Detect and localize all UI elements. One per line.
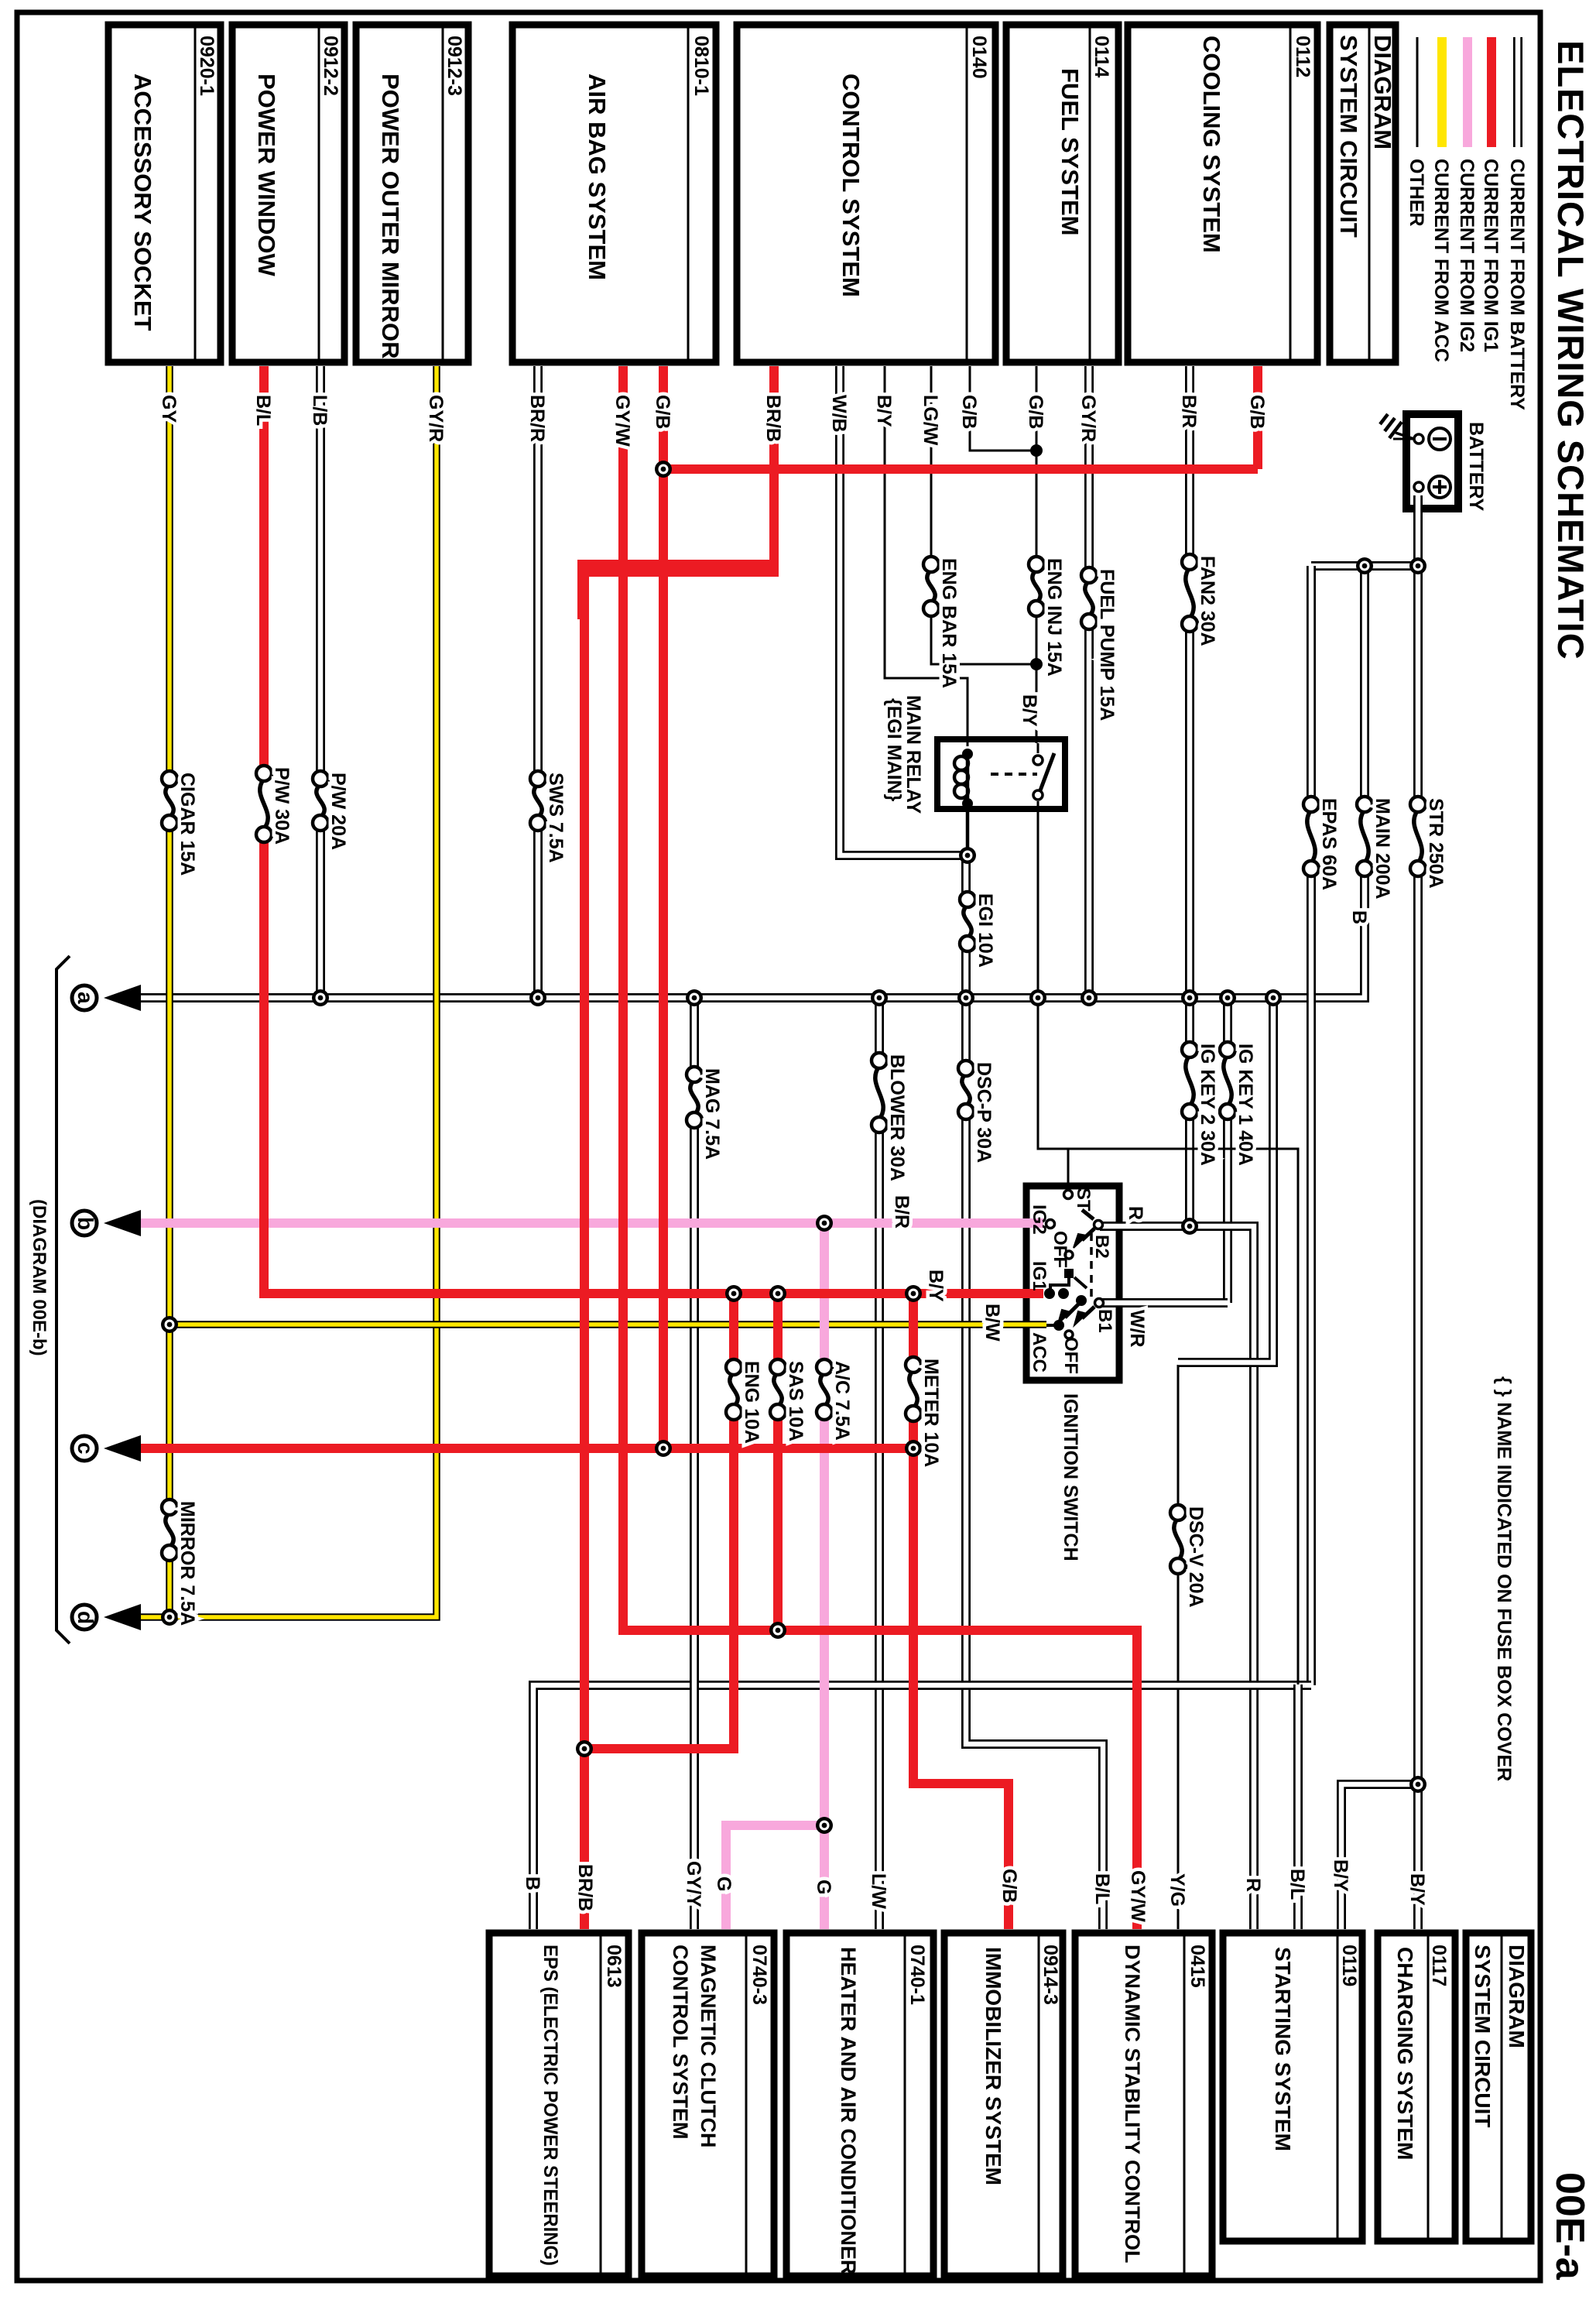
svg-text:IG2: IG2	[1029, 1205, 1050, 1235]
wire GY/R from POWER OUTER MIRROR down to d-line node d	[122, 366, 437, 1617]
junction B/Y line ENG	[725, 1285, 742, 1302]
svg-text:0740-3: 0740-3	[748, 1945, 770, 2005]
wire B/R from COOLING SYSTEM through FAN2 30A, IG KEY 2 30A to R line	[1185, 366, 1194, 1226]
svg-text:B2: B2	[1091, 1235, 1112, 1259]
wire c-line node c	[122, 1444, 913, 1453]
junction a-line BR/R	[529, 989, 546, 1006]
svg-text:c: c	[74, 1442, 98, 1455]
svg-text:B/R: B/R	[891, 1195, 913, 1229]
svg-text:BR/R: BR/R	[526, 395, 548, 442]
relay coil	[962, 749, 973, 759]
svg-text:0912-3: 0912-3	[444, 36, 465, 96]
wire SAS 10A branch	[773, 1294, 783, 1630]
svg-text:ST: ST	[1073, 1187, 1094, 1211]
svg-text:{ } NAME INDICATED ON FUSE BOX: { } NAME INDICATED ON FUSE BOX COVER	[1493, 1376, 1515, 1781]
svg-text:POWER OUTER MIRROR: POWER OUTER MIRROR	[377, 74, 404, 359]
box POWER WINDOW 0912-2	[232, 25, 344, 362]
node c	[72, 1436, 97, 1461]
svg-text:CIGAR 15A: CIGAR 15A	[176, 773, 198, 876]
svg-text:DSC-P 30A: DSC-P 30A	[973, 1062, 995, 1163]
wire BR/R from AIR BAG SYSTEM through SWS 7.5A to a-line	[533, 366, 543, 998]
box DIAGRAM SYSTEM CIRCUIT bottom	[1466, 1933, 1531, 2241]
svg-text:P/W 20A: P/W 20A	[327, 773, 349, 850]
wire BR/B from CONTROL SYSTEM to EPS	[584, 366, 774, 1929]
wire GY from ACCESSORY SOCKET through CIGAR 15A and MIRROR 7.5A	[166, 366, 173, 1617]
box MAGNETIC CLUTCH CONTROL SYSTEM 0740-3	[642, 1933, 774, 2276]
svg-text:0140: 0140	[968, 36, 990, 79]
node b	[72, 1211, 97, 1235]
svg-text:CURRENT FROM ACC: CURRENT FROM ACC	[1430, 159, 1452, 362]
fuse CIGAR 15A	[163, 776, 176, 826]
svg-text:DIAGRAM: DIAGRAM	[1369, 35, 1396, 149]
ignition terminal IG1	[1044, 1288, 1055, 1299]
svg-text:B/Y: B/Y	[925, 1270, 947, 1302]
fuse EPAS 60A	[1305, 801, 1317, 872]
ignition terminal ACC	[1053, 1320, 1064, 1331]
svg-text:W/R: W/R	[1126, 1310, 1148, 1348]
relay dashed link	[991, 773, 1037, 776]
svg-text:L/W: L/W	[868, 1873, 889, 1909]
svg-text:GY/R: GY/R	[1077, 395, 1099, 442]
fuse P/W 30A	[258, 770, 270, 838]
fuse FAN2 30A	[1183, 559, 1196, 627]
fuse METER 10A	[907, 1362, 920, 1417]
svg-text:GY/W: GY/W	[611, 395, 633, 447]
svg-text:GY/Y: GY/Y	[683, 1861, 704, 1907]
main relay box {EGI MAIN}	[937, 739, 1065, 809]
junction a-line relay	[1029, 989, 1046, 1006]
svg-text:0415: 0415	[1187, 1945, 1208, 1988]
svg-text:0613: 0613	[603, 1945, 625, 1988]
svg-text:W/B: W/B	[828, 395, 850, 433]
svg-text:FUEL SYSTEM: FUEL SYSTEM	[1057, 68, 1084, 235]
junction G/B link	[655, 461, 672, 478]
svg-text:AIR BAG SYSTEM: AIR BAG SYSTEM	[584, 74, 611, 280]
junction a-line BLOWER	[871, 989, 888, 1006]
fuse P/W 20A	[314, 776, 327, 826]
wire B/Y branch to starting system	[1341, 1784, 1418, 1929]
box CHARGING SYSTEM 0117	[1378, 1933, 1455, 2241]
junction G/B fuel	[1030, 444, 1043, 457]
wire G branch through A/C 7.5A to heater and magnetic clutch	[726, 1223, 824, 1929]
svg-text:METER 10A: METER 10A	[920, 1359, 942, 1467]
svg-text:(DIAGRAM 00E-b): (DIAGRAM 00E-b)	[29, 1199, 50, 1356]
wire a-line node a to MAIN 200A fuse B	[122, 869, 1365, 998]
svg-text:CURRENT FROM IG2: CURRENT FROM IG2	[1456, 159, 1478, 352]
battery terminal positive	[1414, 482, 1423, 492]
junction a-line FUEL PUMP	[1081, 989, 1098, 1006]
wire GY/W from AIR BAG SYSTEM to GY/W dynamic stability control	[623, 366, 1137, 1929]
svg-text:0912-2: 0912-2	[320, 36, 341, 96]
wire B/Y from CONTROL SYSTEM to main relay coil	[885, 366, 968, 746]
svg-text:B/Y: B/Y	[873, 395, 895, 427]
box DIAGRAM SYSTEM CIRCUIT top	[1330, 25, 1396, 362]
svg-text:ENG 10A: ENG 10A	[741, 1361, 762, 1444]
svg-text:00E-a: 00E-a	[1547, 2172, 1592, 2281]
svg-text:0117: 0117	[1428, 1945, 1450, 1986]
fuse BLOWER 30A	[873, 1057, 885, 1128]
wire LG/W from CONTROL SYSTEM through ENG BAR 15A	[931, 366, 1036, 664]
ground symbol	[1396, 433, 1414, 439]
fuse ENG BAR 15A	[925, 561, 937, 612]
svg-text:IG KEY 1 40A: IG KEY 1 40A	[1235, 1044, 1256, 1166]
ignition blade B1 to ACC	[1065, 1304, 1079, 1318]
svg-text:0740-1: 0740-1	[906, 1945, 928, 2005]
wire BLOWER 30A line L/W to heater	[875, 998, 884, 1929]
svg-text:B/Y: B/Y	[1330, 1859, 1351, 1892]
ignition dashed link B2-B1	[1090, 1233, 1093, 1297]
wire MAIN 200A line	[1360, 566, 1369, 869]
box COOLING SYSTEM 0112	[1128, 25, 1317, 362]
wire W/B from CONTROL SYSTEM to relay coil return	[840, 366, 968, 855]
junction pink split	[816, 1817, 833, 1834]
wire G/B from CONTROL SYSTEM to fuel G/B	[970, 366, 1036, 451]
svg-text:0920-1: 0920-1	[196, 36, 217, 96]
svg-text:BATTERY: BATTERY	[1465, 422, 1487, 512]
box HEATER AND AIR CONDITIONER 0740-1	[786, 1933, 933, 2276]
wire EPAS 60A line	[1307, 566, 1316, 1685]
junction c-line METER	[905, 1440, 922, 1457]
svg-text:ENG BAR 15A: ENG BAR 15A	[938, 558, 960, 688]
wire G/B from FUEL SYSTEM through ENG INJ 15A to relay switch (B/Y)	[1036, 366, 1038, 753]
legend line other	[1416, 37, 1419, 147]
svg-text:b: b	[74, 1217, 98, 1230]
svg-text:MAIN 200A: MAIN 200A	[1372, 798, 1393, 900]
svg-text:ENG INJ 15A: ENG INJ 15A	[1043, 558, 1065, 677]
ignition terminal B1	[1095, 1299, 1104, 1307]
svg-text:SYSTEM CIRCUIT: SYSTEM CIRCUIT	[1471, 1945, 1495, 2127]
fuse DSC-P 30A	[960, 1065, 972, 1115]
wire L/B from POWER WINDOW through P/W 20A to a-line	[316, 366, 325, 998]
svg-text:OFF: OFF	[1060, 1337, 1081, 1374]
ignition terminal IG2	[1046, 1220, 1055, 1229]
legend line current from ACC	[1437, 37, 1447, 147]
junction a-line IG KEY 2	[1181, 989, 1198, 1006]
junction c-line G/B	[655, 1440, 672, 1457]
fuse IG KEY 1 40A	[1221, 1047, 1234, 1115]
svg-text:GY/W: GY/W	[1127, 1870, 1149, 1922]
node d	[72, 1605, 97, 1630]
wire R from ignition B2 to STARTING SYSTEM	[1100, 1226, 1254, 1929]
svg-text:FUEL PUMP 15A: FUEL PUMP 15A	[1096, 569, 1118, 721]
ignition switch box	[1026, 1186, 1119, 1380]
wire METER 10A branch to G/B immobilizer	[913, 1294, 1009, 1929]
svg-text:B: B	[522, 1876, 543, 1890]
ignition terminal B2	[1094, 1221, 1103, 1229]
svg-text:G/B: G/B	[1025, 395, 1046, 429]
wire B to EPS	[533, 1685, 1311, 1929]
wire B/L from POWER WINDOW through P/W 30A, B/Y line to ignition IG1	[264, 366, 1043, 1294]
fuse IG KEY 2 30A	[1183, 1047, 1196, 1115]
svg-text:DIAGRAM: DIAGRAM	[1505, 1945, 1529, 2048]
svg-text:ACCESSORY SOCKET: ACCESSORY SOCKET	[129, 74, 156, 331]
wire b-line node b B/R to ignition IG2	[122, 1218, 1043, 1228]
fuse A/C 7.5A	[818, 1364, 831, 1415]
svg-text:MAG 7.5A: MAG 7.5A	[701, 1068, 723, 1160]
svg-text:G/B: G/B	[1246, 395, 1268, 429]
svg-text:MAGNETIC CLUTCH: MAGNETIC CLUTCH	[697, 1945, 720, 2147]
junction d-line MIRROR	[161, 1609, 178, 1626]
box STARTING SYSTEM 0119	[1223, 1933, 1362, 2241]
svg-text:CONTROL SYSTEM: CONTROL SYSTEM	[669, 1945, 692, 2140]
fuse MIRROR 7.5A	[163, 1504, 176, 1556]
legend line current from battery	[1513, 37, 1522, 147]
wire battery negative to ground	[1393, 438, 1414, 440]
svg-text:SYSTEM CIRCUIT: SYSTEM CIRCUIT	[1335, 35, 1362, 238]
box IMMOBILIZER SYSTEM 0914-3	[944, 1933, 1063, 2276]
junction a-line MAG	[686, 989, 703, 1006]
wire GY/R from FUEL SYSTEM through FUEL PUMP 15A to a-line	[1084, 366, 1094, 998]
svg-text:FAN2 30A: FAN2 30A	[1197, 556, 1218, 646]
svg-text:{EGI MAIN}: {EGI MAIN}	[883, 698, 905, 802]
svg-text:P/W 30A: P/W 30A	[271, 767, 293, 845]
svg-text:STARTING SYSTEM: STARTING SYSTEM	[1271, 1947, 1295, 2151]
svg-text:G/B: G/B	[652, 395, 673, 429]
junction GY/W SAS	[769, 1622, 786, 1639]
fuse DSC-V 20A	[1172, 1510, 1184, 1569]
battery BATTERY	[1406, 414, 1458, 509]
junction B/Y line METER	[905, 1285, 922, 1302]
wire relay coil bottom stub	[966, 808, 970, 855]
junction a-line DSC-V	[1265, 989, 1282, 1006]
junction R line IG KEY 2	[1181, 1218, 1198, 1235]
fuse ENG 10A	[728, 1364, 740, 1415]
junction LG/W ENG INJ	[1030, 658, 1043, 670]
svg-text:IG KEY 2 30A: IG KEY 2 30A	[1197, 1044, 1218, 1166]
svg-text:B/W: B/W	[981, 1304, 1003, 1342]
fuse MAG 7.5A	[688, 1071, 700, 1123]
junction GY ACC feed	[161, 1316, 178, 1333]
fuse EGI 10A	[961, 896, 974, 947]
wire ST stub	[1067, 1149, 1070, 1194]
svg-text:B/L: B/L	[1286, 1869, 1308, 1900]
svg-text:B/R: B/R	[1178, 395, 1200, 428]
svg-text:0914-3: 0914-3	[1039, 1945, 1061, 2005]
wire STR 250A line to B/Y charging system	[1413, 566, 1423, 1929]
svg-text:DYNAMIC STABILITY CONTROL: DYNAMIC STABILITY CONTROL	[1121, 1945, 1144, 2264]
svg-text:CHARGING SYSTEM: CHARGING SYSTEM	[1393, 1947, 1417, 2160]
fuse SWS 7.5A	[532, 776, 544, 826]
wire W/R from ignition B1 to IG KEY 1	[1100, 1298, 1228, 1307]
svg-text:B/L: B/L	[1091, 1873, 1113, 1904]
svg-text:0119: 0119	[1338, 1945, 1360, 1986]
svg-text:B/Y: B/Y	[1406, 1873, 1428, 1906]
svg-text:OFF: OFF	[1050, 1231, 1070, 1268]
wire ENG 10A branch to BR/B	[584, 1294, 734, 1749]
svg-text:BLOWER 30A: BLOWER 30A	[886, 1054, 908, 1181]
junction BR/B ENG	[576, 1740, 593, 1757]
svg-text:GY: GY	[158, 395, 180, 423]
svg-text:ACC: ACC	[1029, 1332, 1050, 1373]
ignition blade B2	[1082, 1229, 1094, 1240]
fuse STR 250A	[1412, 801, 1424, 872]
junction battery bus STR	[1409, 557, 1426, 574]
svg-text:MAIN RELAY: MAIN RELAY	[902, 695, 924, 814]
svg-text:BR/B: BR/B	[762, 395, 784, 442]
svg-text:B: B	[1348, 910, 1370, 924]
svg-text:G/B: G/B	[998, 1869, 1020, 1903]
node a	[72, 985, 97, 1010]
svg-text:EPAS 60A: EPAS 60A	[1318, 798, 1340, 890]
wire B/L lower part into STARTING SYSTEM	[1293, 1684, 1303, 1929]
wire DSC-V 20A line Y/G to dynamic stability control	[1177, 1365, 1180, 1929]
svg-text:IG1: IG1	[1029, 1261, 1050, 1291]
svg-text:EGI 10A: EGI 10A	[974, 893, 996, 968]
junction a-line EGI	[957, 989, 974, 1006]
box DYNAMIC STABILITY CONTROL 0415	[1075, 1933, 1212, 2276]
wire MAG 7.5A branch GY/Y to magnetic clutch	[690, 998, 699, 1929]
svg-text:BR/B: BR/B	[574, 1864, 596, 1911]
svg-text:0810-1: 0810-1	[690, 36, 712, 96]
junction battery bus MAIN	[1356, 557, 1373, 574]
junction a-line L/B	[312, 989, 329, 1006]
battery terminal negative	[1414, 434, 1423, 444]
svg-text:G: G	[713, 1876, 735, 1891]
svg-text:B1: B1	[1094, 1309, 1115, 1333]
svg-text:G/B: G/B	[958, 395, 980, 429]
box CONTROL SYSTEM 0140	[737, 25, 995, 362]
svg-text:B/Y: B/Y	[1019, 694, 1040, 727]
svg-text:R: R	[1242, 1878, 1264, 1892]
svg-text:Y/G: Y/G	[1166, 1873, 1188, 1907]
svg-text:DSC-V 20A: DSC-V 20A	[1185, 1506, 1207, 1608]
ignition position OFF lower	[1065, 1331, 1073, 1338]
fuse ENG INJ 15A	[1030, 561, 1043, 612]
svg-text:STR 250A: STR 250A	[1425, 798, 1447, 889]
wire G/B link to COOLING SYSTEM	[663, 366, 1258, 469]
box POWER OUTER MIRROR 0912-3	[356, 25, 468, 362]
svg-text:d: d	[74, 1611, 98, 1624]
relay switch	[1040, 753, 1054, 790]
junction relay coil W/B	[959, 847, 976, 864]
svg-text:R: R	[1125, 1206, 1146, 1220]
junction STR B/Y branch	[1409, 1776, 1426, 1793]
svg-text:SWS 7.5A: SWS 7.5A	[545, 773, 567, 863]
svg-text:B/L: B/L	[252, 395, 274, 426]
wire battery positive bus	[1311, 495, 1418, 566]
legend line current from IG2	[1463, 37, 1472, 147]
svg-text:POWER WINDOW: POWER WINDOW	[253, 74, 280, 276]
fuse SAS 10A	[772, 1364, 784, 1415]
bracket DIAGRAM 00E-b	[57, 956, 70, 1643]
svg-text:CURRENT FROM BATTERY: CURRENT FROM BATTERY	[1506, 159, 1528, 410]
svg-text:HEATER AND AIR CONDITIONER: HEATER AND AIR CONDITIONER	[837, 1947, 860, 2275]
box AIR BAG SYSTEM 0810-1	[512, 25, 716, 362]
svg-text:a: a	[74, 992, 98, 1004]
svg-text:IMMOBILIZER SYSTEM: IMMOBILIZER SYSTEM	[981, 1947, 1005, 2185]
wire relay switch output to a-line, ST and B/L starting	[1038, 801, 1298, 1684]
wire B/W ACC feed to ignition switch	[170, 1321, 1046, 1328]
svg-text:0114: 0114	[1091, 36, 1112, 77]
ignition terminal ST	[1064, 1191, 1073, 1199]
svg-text:ELECTRICAL WIRING SCHEMATIC: ELECTRICAL WIRING SCHEMATIC	[1550, 40, 1591, 660]
wire EGI 10A / DSC-P 30A line to B/L dynamic stability control	[966, 855, 1103, 1929]
svg-text:LG/W: LG/W	[920, 395, 941, 446]
svg-text:COOLING SYSTEM: COOLING SYSTEM	[1198, 36, 1225, 253]
junction b-line A/C	[816, 1215, 833, 1232]
svg-text:SAS 10A: SAS 10A	[785, 1361, 807, 1441]
fuse MAIN 200A	[1358, 801, 1371, 872]
junction a-line IG KEY 1	[1219, 989, 1236, 1006]
legend line current from IG1	[1487, 37, 1496, 147]
svg-text:CONTROL SYSTEM: CONTROL SYSTEM	[837, 74, 865, 297]
box FUEL SYSTEM 0114	[1006, 25, 1118, 362]
svg-text:OTHER: OTHER	[1406, 159, 1427, 227]
svg-text:L/B: L/B	[309, 395, 331, 426]
box ACCESSORY SOCKET 0920-1	[108, 25, 221, 362]
wire BR/B parallel branch	[582, 564, 776, 619]
wire G/B from AIR BAG SYSTEM down to c-line	[659, 366, 668, 1448]
box EPS ELECTRIC POWER STEERING 0613	[489, 1933, 628, 2276]
svg-text:CURRENT FROM IG1: CURRENT FROM IG1	[1480, 159, 1502, 352]
junction B/Y line SAS	[769, 1285, 786, 1302]
svg-text:IGNITION SWITCH: IGNITION SWITCH	[1060, 1393, 1081, 1561]
wire a-line feed to DSC-V 20A	[1178, 998, 1273, 1362]
svg-text:G: G	[813, 1880, 834, 1894]
svg-text:GY/R: GY/R	[425, 395, 447, 442]
svg-text:MIRROR 7.5A: MIRROR 7.5A	[176, 1501, 198, 1626]
svg-text:EPS (ELECTRIC POWER STEERING): EPS (ELECTRIC POWER STEERING)	[539, 1945, 561, 2266]
fuse FUEL PUMP 15A	[1083, 572, 1095, 625]
wire IG KEY 1 40A to W/R	[1223, 998, 1232, 1303]
ignition position OFF upper	[1065, 1251, 1073, 1259]
svg-text:A/C 7.5A: A/C 7.5A	[831, 1361, 853, 1441]
svg-text:0112: 0112	[1292, 36, 1313, 77]
